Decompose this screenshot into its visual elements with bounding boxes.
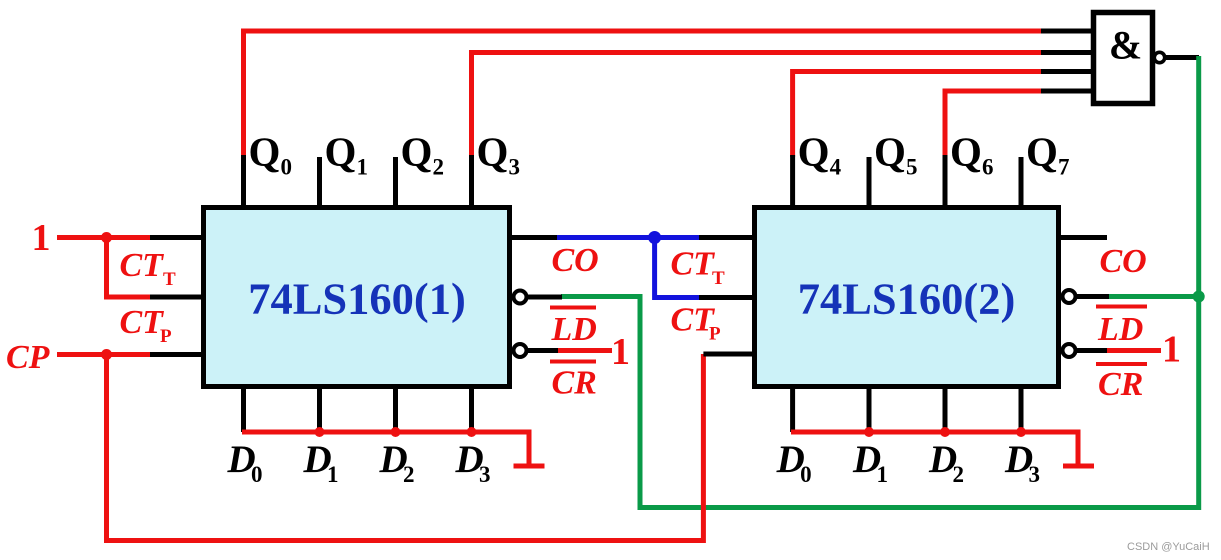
svg-text:Q: Q — [249, 129, 281, 175]
pin D1 chip1 — [317, 388, 322, 432]
svg-text:1: 1 — [877, 462, 889, 487]
svg-text:2: 2 — [953, 462, 965, 487]
ground bar chip1 — [514, 464, 545, 469]
label D0 chip2 — [776, 438, 812, 487]
label Q4 — [798, 129, 842, 180]
svg-text:P: P — [160, 326, 172, 347]
pin CR chip1 bubble — [514, 344, 527, 357]
junction red D1 chip1 — [315, 427, 325, 437]
pin Q5 chip2 — [867, 157, 872, 206]
svg-text:Q: Q — [1026, 129, 1058, 175]
wire red Q6 to NAND input 4 — [945, 91, 1043, 157]
pin D3 chip2 — [1019, 388, 1024, 432]
ground bar chip2 — [1063, 464, 1094, 469]
label D0 chip1 — [227, 438, 263, 487]
svg-text:5: 5 — [906, 155, 918, 180]
wire green NAND output net — [561, 56, 1199, 508]
wire black CR pin chip2 — [1075, 348, 1109, 353]
pin Q7 chip2 — [1019, 157, 1024, 206]
svg-text:CT: CT — [120, 247, 165, 284]
svg-text:CO: CO — [552, 242, 599, 279]
wire black CTP pin chip1 — [150, 295, 204, 300]
label LD chip2 — [1096, 307, 1147, 349]
wire red Q0 to NAND input 1 — [244, 31, 1044, 157]
pin D3 chip1 — [469, 388, 474, 432]
svg-text:1: 1 — [32, 217, 51, 259]
label D2 chip1 — [379, 438, 415, 487]
label CR chip2 — [1096, 364, 1147, 403]
label Q2 — [401, 129, 445, 180]
label D3 chip2 — [1004, 438, 1040, 487]
chip U1 74LS160(1) body — [204, 208, 510, 387]
wire black CO pin chip2 — [1059, 235, 1107, 240]
pin D0 chip1 — [241, 388, 246, 432]
svg-text:74LS160(1): 74LS160(1) — [248, 274, 466, 324]
junction red D3 chip1 — [467, 427, 477, 437]
pin Q6 chip2 — [943, 155, 948, 206]
pin Q3 chip1 — [469, 155, 474, 206]
svg-text:2: 2 — [403, 462, 415, 487]
label D1 chip2 — [852, 438, 888, 487]
label D1 chip1 — [303, 438, 339, 487]
svg-text:Q: Q — [325, 129, 357, 175]
label D2 chip2 — [928, 438, 964, 487]
wire black NAND input 1 — [1041, 29, 1094, 34]
pin Q0 chip1 — [241, 155, 246, 206]
wire red D rail chip1 — [242, 432, 529, 464]
pin Q2 chip1 — [393, 157, 398, 206]
wire black CP pin chip2 — [703, 352, 757, 357]
wire red input 1 to CT pins chip1 — [57, 238, 152, 298]
wire red Q3 to NAND input 2 — [472, 53, 1044, 158]
svg-text:1: 1 — [327, 462, 339, 487]
wire red D rail chip2 — [791, 432, 1078, 464]
wire black CTP pin chip2 — [699, 295, 757, 300]
svg-text:0: 0 — [800, 462, 812, 487]
svg-text:Q: Q — [477, 129, 509, 175]
wire black LD pin chip2 — [1075, 294, 1109, 299]
svg-text:CR: CR — [1098, 366, 1143, 403]
svg-text:&: & — [1109, 23, 1142, 68]
svg-text:T: T — [712, 268, 725, 289]
svg-text:CT: CT — [671, 246, 716, 283]
wire black CO pin chip1 — [510, 235, 559, 240]
svg-text:CT: CT — [120, 304, 165, 341]
wire black NAND input 3 — [1041, 69, 1094, 74]
pin D0 chip2 — [790, 388, 795, 432]
svg-text:1: 1 — [611, 331, 630, 373]
svg-text:CO: CO — [1100, 243, 1147, 280]
wire black NAND input 4 — [1041, 89, 1094, 94]
svg-text:74LS160(2): 74LS160(2) — [798, 274, 1016, 324]
wire black NAND input 2 — [1041, 50, 1094, 55]
pin D1 chip2 — [867, 388, 872, 432]
label LD chip1 — [550, 308, 597, 349]
svg-text:Q: Q — [950, 129, 982, 175]
svg-text:3: 3 — [509, 155, 521, 180]
pin LD chip1 bubble — [514, 291, 527, 304]
svg-text:CR: CR — [552, 365, 597, 402]
wire red CP to chip2 CP pin — [107, 354, 704, 541]
svg-text:CSDN @YuCaiH: CSDN @YuCaiH — [1127, 541, 1210, 553]
pin D2 chip2 — [943, 388, 948, 432]
svg-text:P: P — [709, 324, 721, 345]
svg-text:6: 6 — [982, 155, 994, 180]
svg-text:Q: Q — [401, 129, 433, 175]
chip U2 74LS160(2) body — [755, 208, 1059, 387]
nand gate U3 output bubble — [1154, 52, 1164, 62]
nand gate U3 body — [1094, 13, 1153, 104]
label CR chip1 — [550, 362, 597, 402]
pin CR chip2 bubble — [1063, 344, 1076, 357]
label Q3 — [477, 129, 521, 180]
label D3 chip1 — [455, 438, 491, 487]
pin LD chip2 bubble — [1063, 290, 1076, 303]
svg-text:T: T — [163, 269, 176, 290]
label Q6 — [950, 129, 994, 180]
svg-text:LD: LD — [1097, 311, 1143, 348]
svg-text:CP: CP — [6, 339, 50, 376]
label CTP chip1 — [120, 304, 173, 347]
label Q0 — [249, 129, 293, 180]
svg-text:2: 2 — [433, 155, 445, 180]
pin D2 chip1 — [393, 388, 398, 432]
label CTT chip2 — [671, 246, 726, 290]
junction red D2 chip1 — [391, 427, 401, 437]
wire black LD pin chip1 — [526, 295, 562, 300]
junction red D3 chip2 — [1016, 427, 1026, 437]
svg-text:3: 3 — [479, 462, 491, 487]
wire black CTT pin chip1 — [150, 235, 204, 240]
junction green LD2 node — [1193, 291, 1205, 303]
wire black CP pin chip1 — [150, 352, 204, 357]
label Q5 — [874, 129, 918, 180]
junction blue CO1 node — [648, 231, 661, 244]
label CTP chip2 — [671, 302, 722, 345]
junction red D1 chip2 — [864, 427, 874, 437]
svg-text:1: 1 — [1162, 329, 1181, 371]
wire black NAND output — [1165, 55, 1200, 60]
pin Q4 chip2 — [790, 155, 795, 206]
svg-text:LD: LD — [551, 311, 597, 348]
svg-text:4: 4 — [830, 155, 842, 180]
svg-text:1: 1 — [357, 155, 369, 180]
wire black CTT pin chip2 — [699, 235, 757, 240]
wire red Q4 to NAND input 3 — [793, 72, 1043, 158]
svg-text:Q: Q — [874, 129, 906, 175]
wire red CR chip2 to 1 — [1107, 348, 1161, 353]
svg-text:3: 3 — [1029, 462, 1041, 487]
label Q1 — [325, 129, 369, 180]
label Q7 — [1026, 129, 1070, 180]
junction red D2 chip2 — [940, 427, 950, 437]
svg-text:7: 7 — [1058, 155, 1070, 180]
pin Q1 chip1 — [317, 157, 322, 206]
junction red node 1-CTT — [101, 232, 112, 243]
junction red CP node — [101, 349, 112, 360]
wire red CR chip1 to 1 — [558, 348, 612, 353]
wire blue CO1 to CTT2 — [557, 238, 701, 298]
label CTT chip1 — [120, 247, 177, 290]
svg-text:0: 0 — [251, 462, 263, 487]
wire green chip2 LD branch — [1107, 294, 1199, 299]
wire black CR pin chip1 — [526, 348, 562, 353]
svg-text:0: 0 — [281, 155, 293, 180]
wire red CP input — [57, 352, 152, 357]
svg-text:Q: Q — [798, 129, 830, 175]
